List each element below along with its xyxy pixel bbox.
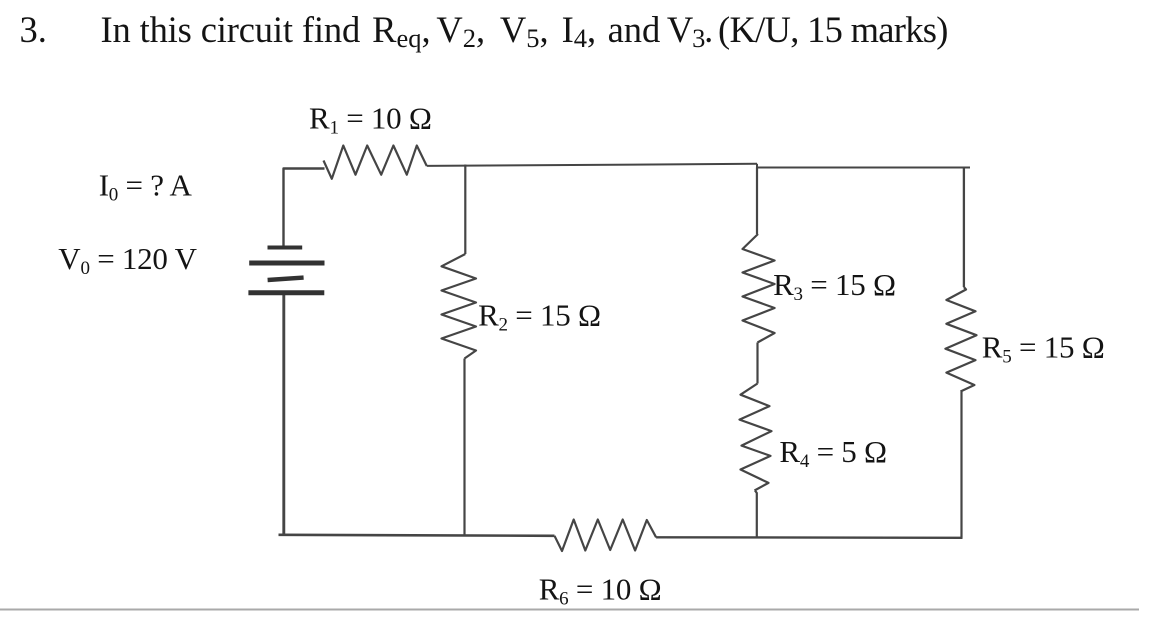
wire battery bottom vertical xyxy=(282,295,285,535)
svg-text:I4,: I4, xyxy=(562,9,597,53)
resistor R3 zigzag xyxy=(743,234,775,343)
resistor R6 zigzag xyxy=(555,520,657,552)
wire top node step at R3 junction xyxy=(756,164,758,168)
wire R2 bottom vertical xyxy=(463,359,465,537)
battery V0 plate long upper xyxy=(249,261,324,266)
wire R5 bottom vertical xyxy=(960,392,962,538)
resistor R4 zigzag xyxy=(740,384,772,491)
page bottom separator line xyxy=(0,609,1139,611)
wire R5 top vertical xyxy=(963,168,965,288)
resistor R2 zigzag xyxy=(442,254,477,359)
svg-text:V0 = 120 V: V0 = 120 V xyxy=(58,241,197,279)
wire between R3 and R4 xyxy=(756,343,758,384)
svg-text:R3 = 15 Ω: R3 = 15 Ω xyxy=(773,267,896,305)
battery V0 plate top short (terminal bar) xyxy=(268,246,303,250)
svg-text:R2 = 15 Ω: R2 = 15 Ω xyxy=(478,297,601,335)
wire bottom left segment xyxy=(279,535,555,536)
wire bottom right segment xyxy=(656,536,962,539)
svg-text:R6 = 10 Ω: R6 = 10 Ω xyxy=(539,572,662,610)
svg-text:(K/U, 15 marks): (K/U, 15 marks) xyxy=(718,9,948,50)
wire R3 top vertical xyxy=(756,168,758,235)
wire top right segment to R5 corner xyxy=(757,167,970,169)
svg-text:V2,: V2, xyxy=(436,9,485,53)
svg-text:V5,: V5, xyxy=(500,9,549,53)
wire top node A (R1 right to R3 junction) xyxy=(427,164,757,166)
svg-text:Req,: Req, xyxy=(372,9,431,53)
svg-text:3.: 3. xyxy=(20,9,47,50)
svg-text:and: and xyxy=(608,9,661,50)
svg-text:V3.: V3. xyxy=(667,9,712,53)
wire R4 bottom vertical xyxy=(755,491,757,538)
svg-text:R4 = 5 Ω: R4 = 5 Ω xyxy=(779,434,886,472)
svg-text:R5 = 15 Ω: R5 = 15 Ω xyxy=(982,329,1105,367)
battery V0 plate long lower xyxy=(248,290,324,295)
resistor R5 zigzag xyxy=(945,287,976,392)
wire R2 top vertical xyxy=(464,165,466,255)
svg-text:R1 = 10 Ω: R1 = 10 Ω xyxy=(309,101,432,139)
svg-text:I0 = ? A: I0 = ? A xyxy=(99,167,193,205)
battery V0 plate short middle (slanted) xyxy=(268,278,304,280)
resistor R1 zigzag xyxy=(324,146,427,179)
svg-text:In this circuit find: In this circuit find xyxy=(101,9,361,50)
wire battery top to R1 left xyxy=(284,169,325,247)
